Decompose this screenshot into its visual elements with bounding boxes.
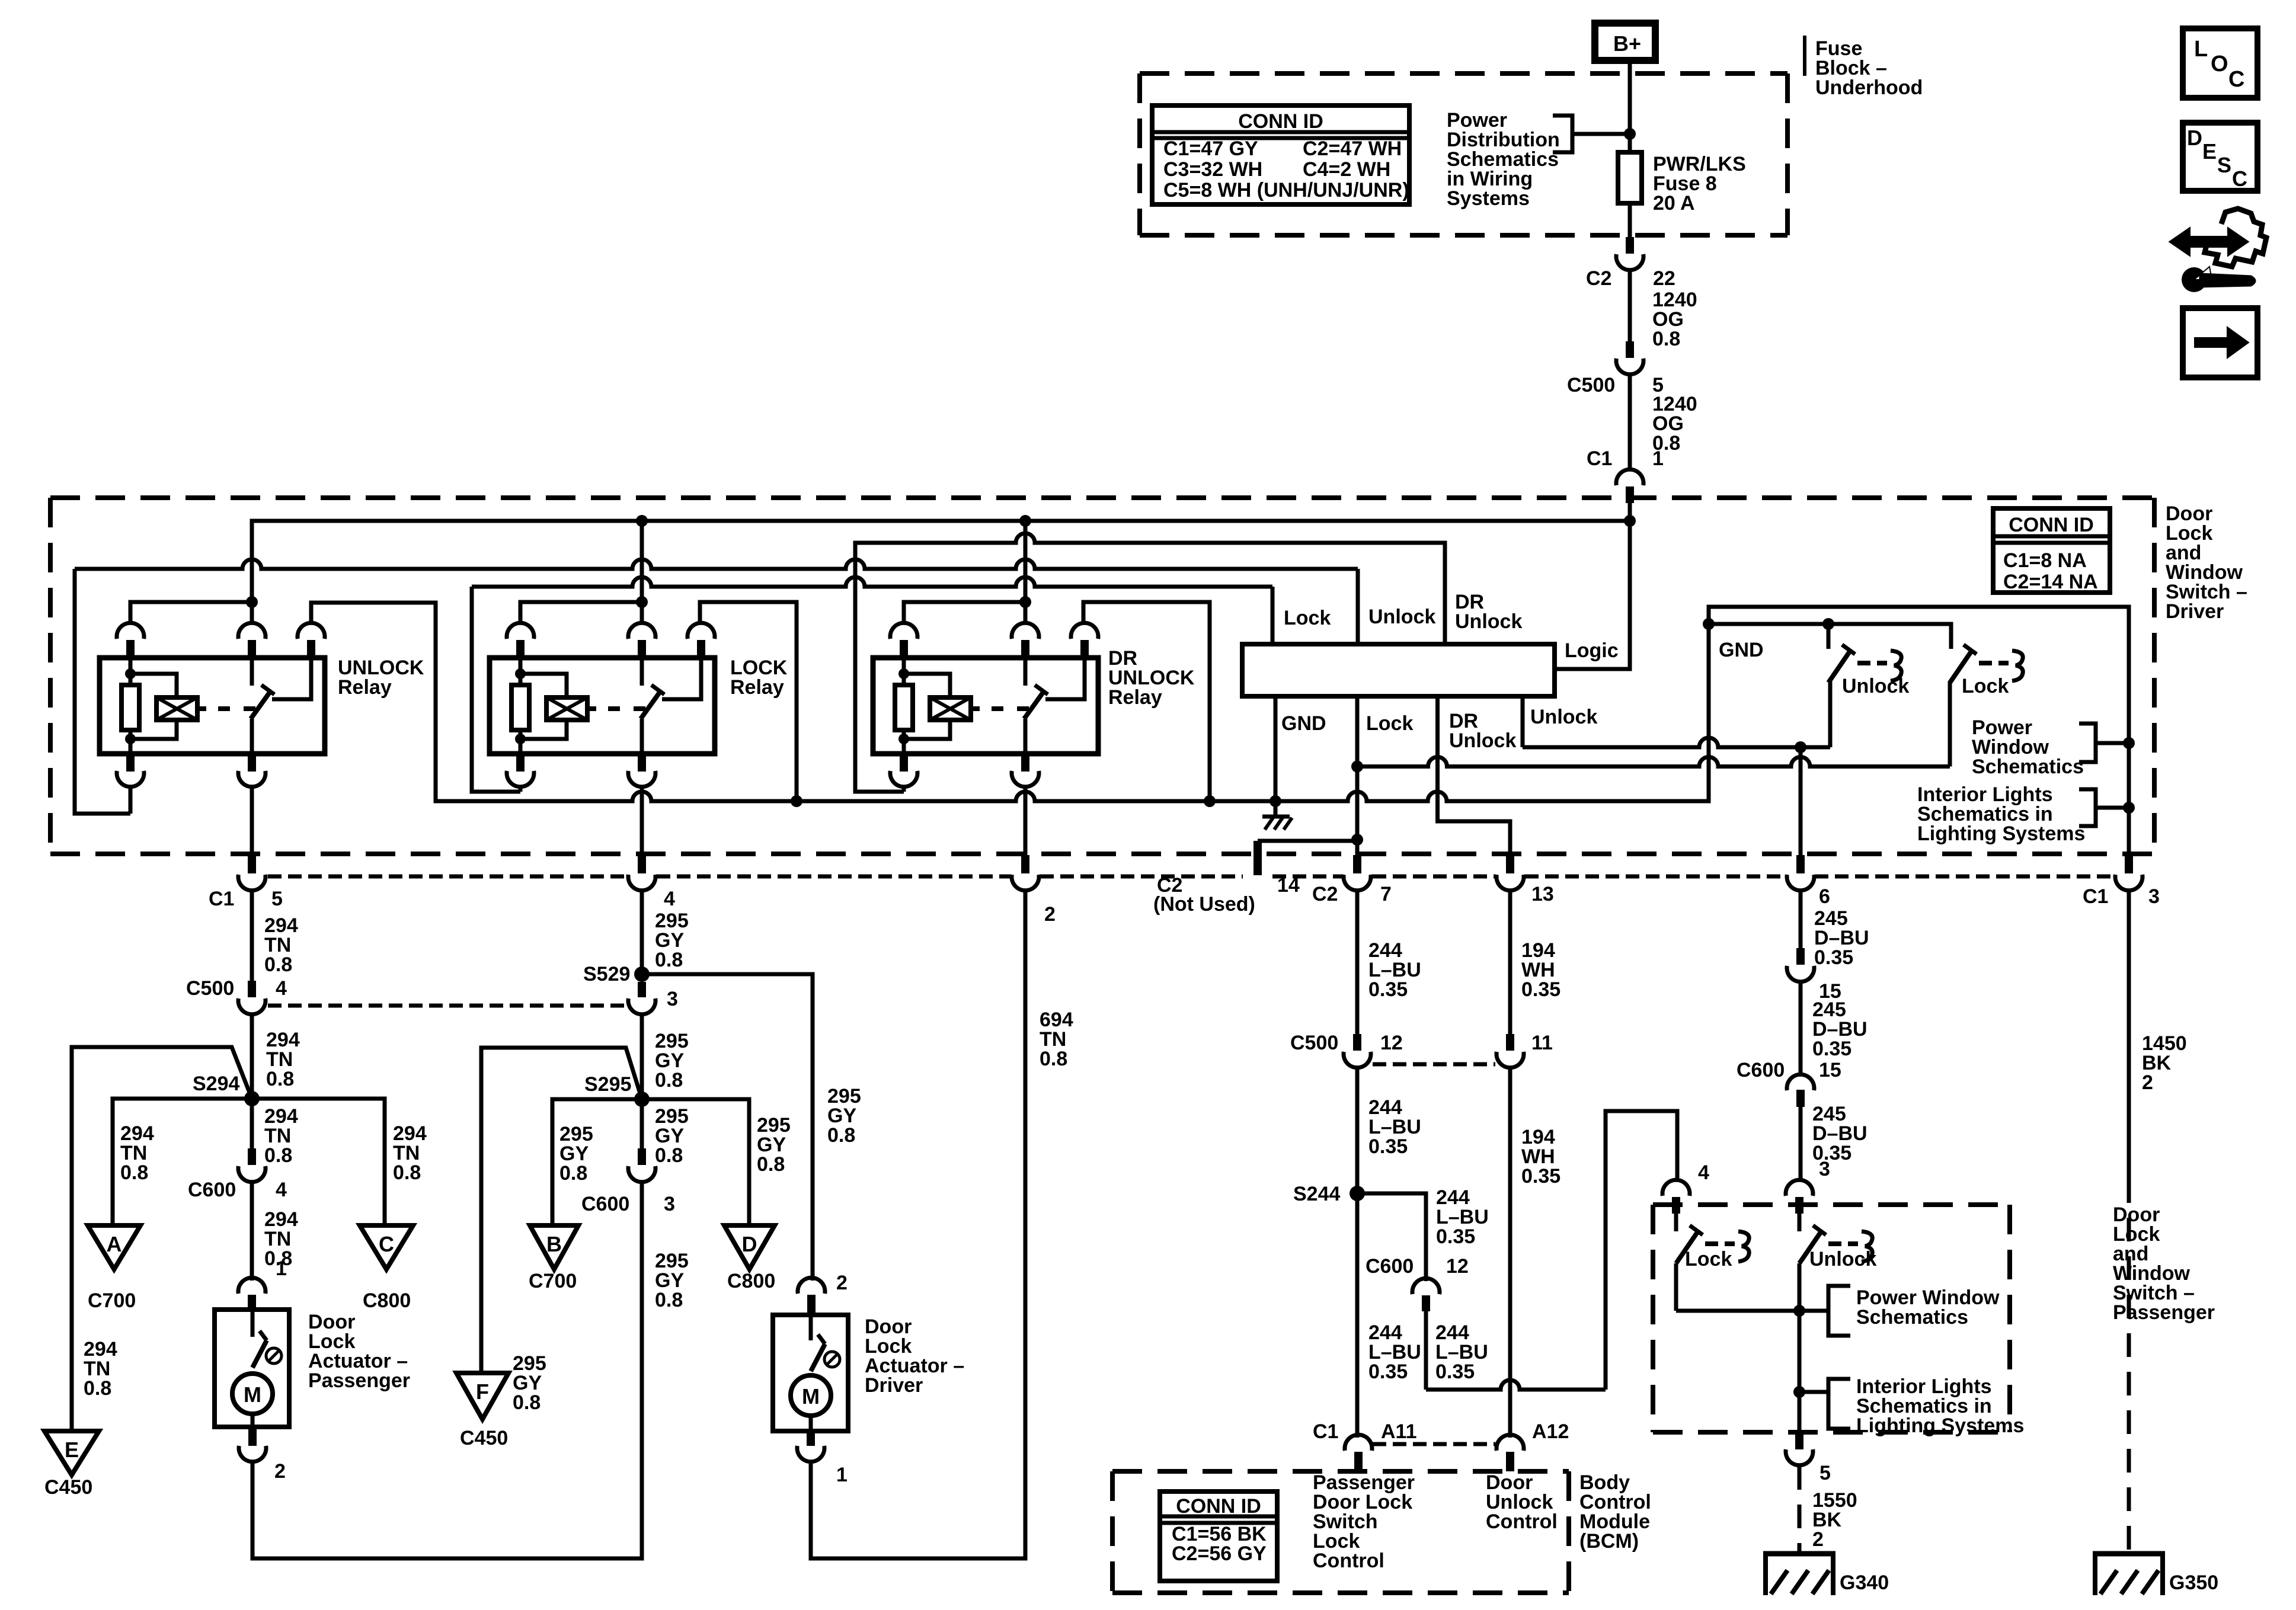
actuator box Door Lock Actuator - Driver <box>773 1315 848 1431</box>
svg-text:Systems: Systems <box>1447 187 1530 210</box>
motor M (driver actuator) <box>791 1375 831 1416</box>
svg-text:M: M <box>802 1384 820 1409</box>
svg-text:0.8: 0.8 <box>757 1153 785 1176</box>
svg-text:S294: S294 <box>193 1073 239 1095</box>
wire lock relay output to ground rail <box>700 602 797 801</box>
svg-text:GND: GND <box>1719 639 1764 661</box>
wire 1450 BK 2 to G350 <box>2127 891 2131 1179</box>
svg-text:4: 4 <box>664 888 675 910</box>
connector C1-6 <box>1796 855 1805 873</box>
svg-text:0.8: 0.8 <box>655 949 683 971</box>
svg-text:Lighting Systems: Lighting Systems <box>1856 1414 2024 1437</box>
icon forward arrow box <box>2183 308 2257 377</box>
svg-text:Underhood: Underhood <box>1815 76 1923 99</box>
wire 294 TN 0.8 pin1 to passenger actuator <box>250 1183 254 1281</box>
fuse block dashed box Fuse Block - Underhood <box>1140 71 1787 76</box>
wire driver actuator pin1 to C1-2 694 TN 0.8 <box>811 891 1025 1558</box>
svg-text:Lock: Lock <box>1962 675 2009 697</box>
svg-text:C1=47 GY: C1=47 GY <box>1163 137 1258 160</box>
svg-text:B+: B+ <box>1613 31 1641 56</box>
svg-text:7: 7 <box>1380 883 1392 905</box>
actuator box Door Lock Actuator - Passenger <box>215 1310 289 1427</box>
svg-text:A11: A11 <box>1381 1420 1417 1443</box>
svg-text:0.35: 0.35 <box>1368 1135 1408 1158</box>
connector C600-3 <box>638 1148 646 1165</box>
wire B+ rail (to relay commons) <box>252 521 1630 625</box>
wire S244 down to BCM A11 <box>1355 1193 1360 1438</box>
svg-text:(Not Used): (Not Used) <box>1153 893 1255 916</box>
svg-text:F: F <box>476 1379 489 1404</box>
svg-text:20 A: 20 A <box>1653 192 1695 215</box>
wire S294 down to C600-4 <box>250 1099 254 1148</box>
svg-text:4: 4 <box>276 1179 287 1201</box>
fuse PWR/LKS Fuse 8 20 A <box>1618 152 1642 203</box>
svg-text:L: L <box>2194 37 2208 62</box>
off-page connector E to C450 <box>44 1431 99 1475</box>
connector row C500 dashed (middle) <box>1373 1062 1495 1067</box>
svg-text:(BCM): (BCM) <box>1579 1530 1639 1553</box>
wire S244 branch to C600-12 <box>1357 1193 1426 1281</box>
junction dot passenger switch common <box>1793 1305 1805 1317</box>
bracket Power Window Schematics (passenger) <box>1799 1309 1828 1313</box>
svg-text:Logic: Logic <box>1565 639 1619 662</box>
connector pin 2 driver actuator <box>798 1278 825 1294</box>
connector pin 1 driver actuator <box>807 1431 815 1446</box>
wire lock relay output down <box>640 787 644 855</box>
svg-text:C1=8 NA: C1=8 NA <box>2003 549 2087 572</box>
svg-text:13: 13 <box>1531 883 1554 905</box>
wire logic Lock output to C2-7 and lock switch <box>1355 696 1360 855</box>
svg-text:C2=14 NA: C2=14 NA <box>2003 571 2098 593</box>
svg-text:G340: G340 <box>1840 1571 1889 1594</box>
connector C500-11 <box>1506 1034 1514 1051</box>
junction dots relay coil ties <box>246 596 258 608</box>
wire 244 L-BU 0.35 (C500-12 to S244) <box>1355 1068 1360 1193</box>
wire S295 to connector D <box>642 1099 749 1225</box>
svg-text:Unlock: Unlock <box>1449 729 1516 752</box>
svg-text:3: 3 <box>667 988 678 1010</box>
connector C1-2 <box>1021 855 1029 873</box>
svg-text:S529: S529 <box>583 963 630 985</box>
label Fuse Block - Underhood + leader tick <box>1803 36 1806 76</box>
svg-text:O: O <box>2211 52 2228 76</box>
svg-text:G350: G350 <box>2169 1571 2218 1594</box>
svg-text:Schematics: Schematics <box>1856 1306 1968 1329</box>
wire 1550 BK 2 to G340 <box>1798 1466 1802 1554</box>
svg-text:0.35: 0.35 <box>1521 1165 1560 1188</box>
svg-text:D: D <box>2187 126 2202 150</box>
wire S529 to driver actuator pin 2 <box>642 974 813 1281</box>
wire B+ feed down to logic input <box>1555 521 1630 669</box>
wire logic GND output <box>1274 696 1278 801</box>
svg-text:1: 1 <box>836 1464 848 1486</box>
off-page connector B to C700 <box>530 1225 578 1269</box>
junction dot GND rail top <box>1703 618 1715 630</box>
wire S295 down to C600-3 <box>640 1099 644 1148</box>
svg-text:Unlock: Unlock <box>1455 610 1522 633</box>
wire unlock switch network down to C1-6 <box>1799 747 1803 855</box>
svg-text:Unlock: Unlock <box>1530 706 1597 728</box>
relay LOCK (box, coil, resistor, switch, connectors) <box>490 658 715 754</box>
svg-text:0.8: 0.8 <box>120 1161 148 1184</box>
wire 295 GY 0.8 (C1-4 to S529) <box>640 891 644 974</box>
svg-text:0.8: 0.8 <box>655 1289 683 1311</box>
icon vehicle with wrench <box>2170 229 2247 255</box>
wire unlock relay coil tie <box>130 602 252 625</box>
svg-text:C3=32 WH: C3=32 WH <box>1163 158 1262 181</box>
connector C500 5 <box>1626 341 1634 358</box>
wire dr unlock relay coil tie <box>904 602 1025 625</box>
splice S294 <box>244 1091 260 1106</box>
inline connector 15 <box>1796 948 1805 965</box>
actuator switch symbol (driver) <box>809 1315 813 1340</box>
logic box of driver switch <box>1242 644 1555 696</box>
svg-text:C500: C500 <box>1290 1032 1338 1054</box>
svg-text:C450: C450 <box>460 1427 508 1449</box>
svg-text:Relay: Relay <box>338 676 392 699</box>
svg-text:S295: S295 <box>584 1073 631 1096</box>
wire 1240 OG 0.8 (fuse to C500) <box>1628 271 1632 341</box>
ground G350 <box>2093 1551 2165 1557</box>
wire 245 D-BU 0.35 (to C600-15) <box>1799 982 1803 1076</box>
CONN ID table (driver switch) <box>1993 508 2110 593</box>
svg-text:C600: C600 <box>581 1193 629 1215</box>
wire C600-12 to passenger lock switch pin 4 <box>1426 1380 1606 1390</box>
wire unlock relay coil return hook <box>129 787 133 814</box>
svg-text:0.8: 0.8 <box>1652 328 1680 350</box>
svg-text:Lock: Lock <box>1685 1248 1732 1270</box>
svg-text:C2: C2 <box>1586 267 1611 290</box>
wire 295 GY 0.8 (C500-3 to S295) <box>640 1015 644 1099</box>
svg-text:C800: C800 <box>727 1270 775 1292</box>
svg-text:0.8: 0.8 <box>827 1124 855 1147</box>
connector C2-13 <box>1506 855 1514 873</box>
svg-text:3: 3 <box>2148 885 2160 908</box>
svg-text:2: 2 <box>2142 1071 2153 1094</box>
ground G340 <box>1763 1551 1835 1557</box>
svg-text:0.8: 0.8 <box>393 1161 421 1184</box>
wire Unlock command to relay coil <box>75 559 1358 569</box>
svg-text:C: C <box>2228 67 2244 92</box>
svg-text:2: 2 <box>274 1460 286 1483</box>
connector C2 22 below fuse block <box>1626 237 1634 254</box>
relay UNLOCK (box, coil, resistor, switch, connectors) <box>100 658 325 754</box>
svg-text:0.8: 0.8 <box>84 1377 111 1400</box>
wire logic DR Unlock output to C2-13 <box>1438 696 1511 855</box>
connector C1-5 <box>248 855 256 873</box>
svg-text:Unlock: Unlock <box>1842 675 1909 697</box>
connector pin 5 passenger switch <box>1795 1433 1803 1449</box>
CONN ID table (BCM) <box>1160 1491 1277 1581</box>
off-page connector D to C800 <box>724 1225 775 1269</box>
battery feed B+ terminal box <box>1595 23 1655 60</box>
svg-text:C4=2 WH: C4=2 WH <box>1303 158 1390 181</box>
wire S294 to connector E <box>72 1047 252 1431</box>
wire 295 GY 0.8 down to passenger actuator pin 2 <box>252 1183 642 1558</box>
svg-text:0.8: 0.8 <box>264 1144 292 1167</box>
svg-text:C500: C500 <box>186 977 234 1000</box>
svg-text:11: 11 <box>1531 1032 1553 1054</box>
svg-text:2: 2 <box>1812 1528 1824 1551</box>
junction dot B+ feed <box>1624 515 1636 527</box>
svg-text:C2=47 WH: C2=47 WH <box>1303 137 1402 160</box>
svg-text:0.8: 0.8 <box>513 1391 541 1414</box>
connector C500-4 <box>248 981 256 997</box>
svg-text:0.35: 0.35 <box>1812 1142 1851 1164</box>
svg-text:1: 1 <box>1652 447 1664 470</box>
svg-text:0.35: 0.35 <box>1368 1361 1408 1383</box>
svg-text:C700: C700 <box>529 1270 577 1292</box>
wire dr unlock relay output to ground rail <box>1083 602 1210 801</box>
wire 294 TN 0.8 (C1-5 to C500-4) <box>250 891 254 981</box>
junction dot at fuse top <box>1624 128 1636 140</box>
svg-text:0.8: 0.8 <box>655 1069 683 1092</box>
wire dr unlock relay coil return hook <box>902 787 906 792</box>
wire unlock relay output to ground rail / ground rail / switch box right rail <box>311 603 2129 855</box>
svg-text:Schematics: Schematics <box>1972 756 2084 778</box>
wire S295 to connector B <box>552 1099 642 1225</box>
svg-text:12: 12 <box>1380 1032 1403 1054</box>
wire logic Unlock output to unlock switch <box>1523 738 1830 747</box>
svg-text:D: D <box>742 1232 757 1256</box>
motor M (passenger actuator) <box>232 1374 273 1414</box>
wire 194 WH 0.35 (C2-13 to C500-11) <box>1508 891 1512 1034</box>
svg-text:2: 2 <box>836 1272 848 1294</box>
actuator switch symbol (passenger) <box>251 1310 255 1337</box>
connector A11 into BCM <box>1345 1435 1372 1451</box>
svg-text:C1: C1 <box>1587 447 1612 470</box>
svg-text:15: 15 <box>1819 1059 1841 1081</box>
connector C1-4 <box>638 855 646 873</box>
switch Unlock (passenger) <box>1798 1214 1802 1231</box>
svg-text:0.35: 0.35 <box>1812 1038 1851 1060</box>
relay DR UNLOCK (box, coil, resistor, switch, connectors) <box>873 658 1098 754</box>
svg-text:C600: C600 <box>1366 1255 1414 1278</box>
wire 294 TN 0.8 (C500-4 to S294) <box>250 1015 254 1099</box>
svg-text:Passenger: Passenger <box>308 1369 410 1392</box>
off-page connector F to C450 <box>456 1373 509 1419</box>
junction dots on switch box right rail <box>2123 737 2135 749</box>
svg-text:0.35: 0.35 <box>1521 978 1560 1001</box>
icon DESC box <box>2183 123 2257 191</box>
junction dot unlock output <box>1795 741 1806 753</box>
wire lock switch bottom to common <box>1676 1309 1799 1313</box>
connector pin 2 passenger actuator <box>248 1427 257 1446</box>
svg-text:E: E <box>2202 139 2217 164</box>
splice S244 <box>1350 1186 1365 1201</box>
wire 245 D-BU 0.35 (C1-6 down) <box>1799 891 1803 948</box>
junction dot unlock switch top <box>1822 618 1834 630</box>
svg-text:Unlock: Unlock <box>1368 606 1435 628</box>
junction dots lock output <box>1351 761 1363 773</box>
svg-text:C2: C2 <box>1312 883 1338 905</box>
dashed box Door Lock and Window Switch - Driver <box>50 495 2154 500</box>
svg-text:C1: C1 <box>1313 1420 1338 1443</box>
svg-text:CONN ID: CONN ID <box>1238 110 1323 133</box>
switch Lock (passenger) <box>1674 1214 1678 1231</box>
svg-text:A12: A12 <box>1532 1420 1569 1443</box>
svg-text:12: 12 <box>1446 1255 1469 1278</box>
svg-text:5: 5 <box>271 888 283 910</box>
wire B+ down to fuse <box>1628 60 1632 237</box>
svg-text:0.35: 0.35 <box>1368 978 1408 1001</box>
svg-text:C600: C600 <box>1737 1059 1785 1081</box>
svg-text:C5=8 WH (UNH/UNJ/UNR): C5=8 WH (UNH/UNJ/UNR) <box>1163 179 1409 201</box>
wire 194 WH 0.35 (C500-11 to BCM A12) <box>1508 1068 1512 1438</box>
svg-text:C500: C500 <box>1567 374 1615 396</box>
svg-text:4: 4 <box>1698 1161 1709 1184</box>
connector row dashed line <box>268 875 627 879</box>
svg-text:0.8: 0.8 <box>266 1068 294 1090</box>
wire unlock relay output down <box>250 787 254 855</box>
connector C1-3 <box>2125 855 2133 873</box>
svg-text:Control: Control <box>1313 1550 1384 1572</box>
svg-text:M: M <box>244 1382 261 1407</box>
svg-text:C1: C1 <box>2083 885 2108 908</box>
connector C2-7 <box>1353 855 1361 873</box>
dashed box Body Control Module BCM <box>1112 1469 1569 1474</box>
svg-text:Unlock: Unlock <box>1809 1248 1876 1270</box>
switch Lock (driver) <box>1950 651 1972 683</box>
svg-text:6: 6 <box>1819 885 1830 908</box>
svg-text:S: S <box>2217 153 2231 177</box>
svg-text:Relay: Relay <box>1108 686 1162 709</box>
svg-text:3: 3 <box>1819 1158 1830 1180</box>
svg-text:Driver: Driver <box>2166 600 2224 623</box>
svg-text:0.8: 0.8 <box>655 1144 683 1167</box>
junction dots on ground rail <box>791 795 802 807</box>
connector row A11 A12 dashed <box>1373 1442 1495 1446</box>
svg-text:2: 2 <box>1044 903 1056 926</box>
bracket Power Window Schematics (driver) <box>2079 724 2096 762</box>
svg-text:0.8: 0.8 <box>559 1162 587 1185</box>
wire S295 to connector F <box>481 1048 642 1373</box>
svg-text:5: 5 <box>1819 1462 1831 1484</box>
wire Lock command to relay coil <box>472 577 1272 587</box>
svg-text:A: A <box>107 1232 122 1256</box>
svg-text:CONN ID: CONN ID <box>2009 514 2094 536</box>
wire 244 L-BU 0.35 (C2-7 to C500-12) <box>1355 891 1360 1034</box>
svg-text:S244: S244 <box>1293 1183 1340 1205</box>
svg-text:0.8: 0.8 <box>1040 1048 1067 1070</box>
svg-text:Lock: Lock <box>1284 607 1331 629</box>
wire DR Unlock command to relay coil <box>855 533 1445 792</box>
svg-text:Control: Control <box>1486 1510 1558 1533</box>
off-page connector C to C800 <box>360 1225 413 1269</box>
splice S295 <box>634 1092 650 1107</box>
connector C500-12 <box>1353 1034 1361 1051</box>
connector pin 1 passenger actuator <box>238 1278 266 1294</box>
svg-text:C1: C1 <box>209 888 234 910</box>
switch Unlock (driver) <box>1827 624 1831 649</box>
bracket Interior Lights Schematics (passenger) <box>1799 1390 1828 1394</box>
wire S294 to connector A <box>113 1099 252 1225</box>
wire lock relay coil tie <box>520 602 642 625</box>
svg-text:C700: C700 <box>88 1289 136 1312</box>
ground symbol (switch internal) <box>1274 801 1278 817</box>
wire 245 D-BU 0.35 (C600-15 to pin 3) <box>1799 1107 1803 1180</box>
svg-text:GND: GND <box>1281 712 1326 735</box>
svg-text:22: 22 <box>1653 267 1675 290</box>
svg-text:0.35: 0.35 <box>1436 1225 1475 1248</box>
off-page connector A to C700 <box>88 1225 140 1269</box>
svg-text:C: C <box>379 1232 394 1256</box>
junction dots on B+ rail <box>636 515 648 527</box>
svg-text:0.8: 0.8 <box>264 953 292 976</box>
svg-text:0.35: 0.35 <box>1814 946 1853 969</box>
svg-text:3: 3 <box>664 1193 675 1215</box>
svg-text:Lock: Lock <box>1366 712 1413 735</box>
svg-text:E: E <box>65 1438 79 1462</box>
svg-text:4: 4 <box>276 977 287 1000</box>
wire lock relay coil return hook <box>519 787 523 792</box>
icon LOC box <box>2183 28 2257 98</box>
wire dr unlock relay output down <box>1024 787 1028 855</box>
bracket Interior Lights Schematics (driver) <box>2079 789 2096 826</box>
svg-text:Relay: Relay <box>730 676 784 699</box>
connector row C500 dashed line <box>268 1004 627 1008</box>
splice S529 <box>634 966 650 982</box>
connector A12 into BCM <box>1496 1435 1524 1451</box>
wire 1240 OG 0.8 (C500 to C1) <box>1628 375 1632 471</box>
svg-text:Driver: Driver <box>865 1374 923 1397</box>
svg-text:CONN ID: CONN ID <box>1176 1495 1261 1518</box>
svg-text:C600: C600 <box>188 1179 236 1201</box>
wire switch common rail <box>1709 624 1951 649</box>
svg-text:1: 1 <box>276 1257 287 1280</box>
junction dot passenger interior lights tap <box>1793 1386 1805 1398</box>
svg-text:C2=56 GY: C2=56 GY <box>1172 1542 1267 1565</box>
CONN ID table (fuse block) <box>1152 105 1409 204</box>
svg-text:C: C <box>2232 167 2247 191</box>
connector C600-4 <box>248 1148 256 1165</box>
wire to C2-14 not used <box>1258 839 1357 843</box>
svg-text:B: B <box>546 1232 562 1256</box>
svg-text:C450: C450 <box>44 1476 92 1499</box>
svg-text:0.35: 0.35 <box>1435 1361 1475 1383</box>
svg-text:Lighting Systems: Lighting Systems <box>1917 822 2085 845</box>
svg-text:C800: C800 <box>363 1289 411 1312</box>
dashed box Door Lock and Window Switch - Passenger <box>1653 1202 2010 1207</box>
bracket to power distribution note <box>1553 116 1572 152</box>
wire S294 to connector C <box>252 1099 385 1225</box>
